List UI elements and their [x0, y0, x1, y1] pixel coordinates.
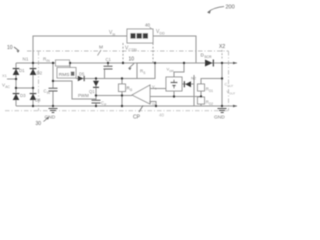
svg-text:RMS: RMS: [59, 72, 70, 78]
svg-text:D2: D2: [209, 102, 213, 106]
svg-text:40: 40: [145, 23, 150, 28]
svg-text:CP: CP: [133, 115, 141, 121]
svg-text:DD: DD: [160, 32, 166, 36]
svg-text:D4: D4: [35, 98, 41, 103]
svg-text:CL: CL: [152, 102, 156, 106]
svg-text:CTRL: CTRL: [129, 48, 138, 52]
svg-text:C1: C1: [106, 57, 112, 62]
svg-text:X1: X1: [2, 73, 8, 78]
svg-text:OUT: OUT: [227, 84, 233, 88]
svg-text:N2: N2: [191, 76, 197, 81]
svg-text:40: 40: [159, 113, 164, 118]
svg-text:PWM: PWM: [78, 93, 89, 98]
svg-text:D5: D5: [79, 72, 85, 77]
svg-text:10: 10: [7, 45, 13, 51]
svg-text:10: 10: [129, 57, 135, 63]
svg-text:D1: D1: [19, 68, 25, 73]
svg-text:SCR: SCR: [204, 55, 212, 59]
svg-text:Q1: Q1: [89, 89, 95, 94]
svg-text:X2: X2: [219, 44, 225, 50]
svg-text:D3: D3: [20, 93, 26, 98]
svg-text:200: 200: [226, 5, 235, 11]
svg-text:in: in: [113, 33, 116, 37]
svg-text:S: S: [143, 71, 145, 75]
svg-text:N1: N1: [23, 57, 29, 62]
svg-text:30: 30: [36, 121, 42, 126]
svg-text:G: G: [130, 88, 133, 92]
svg-text:D1: D1: [209, 89, 213, 93]
svg-text:P: P: [104, 103, 106, 107]
svg-text:M: M: [99, 45, 103, 51]
svg-text:OUT: OUT: [229, 91, 235, 95]
svg-text:IN: IN: [47, 91, 51, 95]
svg-text:IN: IN: [46, 59, 50, 63]
svg-text:GND: GND: [45, 115, 56, 121]
svg-text:D2: D2: [37, 71, 43, 76]
svg-text:AC: AC: [5, 85, 10, 89]
svg-text:GND: GND: [214, 115, 225, 121]
